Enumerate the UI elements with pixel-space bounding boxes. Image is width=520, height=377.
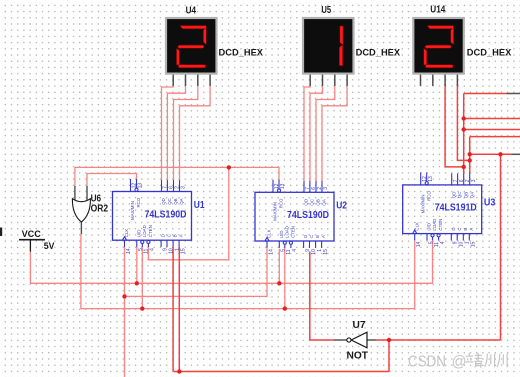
junction QA y160.4: [468, 158, 472, 162]
junction QA y154.3: [468, 152, 472, 156]
svg-text:74LS191D: 74LS191D: [435, 203, 477, 214]
wire U5 pin3 to U2 QB: [316, 84, 335, 181]
not gate U7: [334, 332, 376, 348]
wire U5 pin2 to U2 QC: [310, 84, 323, 181]
wire net RCO-bus: OR input A to U2 pin13, y=167: [75, 167, 279, 186]
junction RCO bus: [227, 165, 231, 169]
wire U1 CTEN to RCO-bus junction: [148, 167, 228, 259]
counter U1 74LS190D: [113, 179, 192, 254]
wire U3 QA trunk vertical: [469, 137, 471, 174]
wire NOT output to U2 C preset: [310, 252, 334, 341]
stub off-sheet y93.5: [507, 93, 520, 95]
svg-text:U5: U5: [321, 5, 331, 16]
wire U1 U/D drop to line A: [136, 247, 138, 283]
svg-text:OR2: OR2: [91, 204, 109, 215]
wire VCC to U/D bus (line A y=283.3) ending at U3 LOAD: [30, 241, 432, 284]
wire U5 pin1 to U2 QD: [304, 84, 310, 181]
wire CLK bus line B y=296.4 to U2 CLK: [125, 248, 268, 296]
wire U3 QB trunk vertical: [463, 94, 465, 174]
wire right trunk x=500.5 down to NOT input net: [500, 154, 502, 340]
svg-text:NOT: NOT: [347, 351, 369, 362]
junction U1 LOAD: [140, 306, 144, 310]
wire U1 A down to bottom bus: [178, 247, 180, 372]
gray right-edge stubs: [507, 94, 520, 155]
junction right trunk: [498, 152, 502, 156]
stub off-sheet y154.3: [512, 153, 520, 155]
wire QA branch top y=136.6: [470, 136, 520, 138]
wire QB branch y=118.5: [464, 118, 520, 120]
wire U4 pin2 to U1 QC: [167, 84, 185, 180]
wire U1 CLK down to sheet bottom: [124, 247, 126, 377]
wire U14 pin3 down to QB trunk: [445, 84, 464, 167]
svg-text:U4: U4: [186, 6, 197, 17]
wire OR2 output to LOAD bus (line C y=308.6) ending at U3 CLK: [81, 234, 415, 309]
wire QB branch top y=93.5: [464, 93, 507, 95]
junction QB y129.5: [462, 127, 466, 131]
junction U2 LOAD: [283, 306, 287, 310]
wire U14 pin4 down to QA trunk: [457, 84, 469, 160]
watermark glyph chuan 2: [497, 354, 507, 368]
clipped component at left edge: [0, 228, 2, 237]
junction U1 CLK: [122, 294, 126, 298]
or gate U6 OR2: [72, 186, 90, 234]
svg-text:VCC: VCC: [22, 229, 42, 239]
wire U4 pin4 to U1 QA: [180, 84, 211, 180]
wire QB branch y=129.5: [464, 129, 520, 131]
junction NOT input: [387, 338, 391, 342]
junction QB y118.5: [462, 116, 466, 120]
counter U3 74LS191D: [403, 172, 482, 247]
display U5: [303, 18, 354, 86]
junction bottom bus U1.A: [177, 369, 181, 373]
watermark glyph chuan 1: [485, 354, 495, 368]
vcc power source: [19, 240, 45, 252]
svg-text:DCD_HEX: DCD_HEX: [219, 47, 264, 57]
svg-text:U3: U3: [484, 197, 496, 208]
wire NOT input junction down to bottom bus: [388, 340, 390, 372]
digit 2 on U14: [424, 26, 454, 68]
junction QB y166.9: [462, 165, 466, 169]
counter U2 74LS190D: [255, 180, 334, 255]
svg-text:@: @: [452, 354, 467, 371]
display U4: [166, 18, 217, 86]
junction U2 U/D: [277, 281, 281, 285]
watermark glyph jing: [465, 353, 482, 368]
digit 1 on U5: [339, 26, 343, 66]
svg-text:U7: U7: [353, 320, 367, 331]
wire bottom bus y=371.5: [174, 371, 390, 373]
digit 2 on U4: [177, 26, 207, 68]
display U14: [413, 18, 464, 86]
svg-text:U1: U1: [194, 200, 205, 211]
wire U1 RCO pin13 to OR input B, y=173.5: [87, 174, 137, 187]
svg-text:CSDN: CSDN: [408, 354, 446, 371]
wire U2 U/D drop to line A: [278, 249, 280, 284]
svg-text:DCD_HEX: DCD_HEX: [356, 47, 401, 57]
svg-text:DCD_HEX: DCD_HEX: [467, 47, 512, 57]
junction U1 U/D: [135, 281, 139, 285]
svg-text:74LS190D: 74LS190D: [145, 209, 187, 220]
wire U4 pin1 to U1 QD: [162, 84, 174, 180]
wire U1 B down to bottom bus: [172, 247, 174, 372]
svg-text:5V: 5V: [44, 241, 55, 251]
svg-text:U2: U2: [336, 200, 347, 211]
wire U2 LOAD drop to line C: [284, 248, 286, 309]
wire QA branch y=154.3 to right stub: [470, 153, 512, 155]
wire NOT input to right trunk: [376, 339, 500, 341]
wire U5 pin4 to U2 QA: [322, 84, 347, 181]
wire U1 LOAD drop to line C: [141, 247, 143, 308]
wire U4 pin3 to U1 QB: [174, 84, 198, 180]
svg-text:74LS190D: 74LS190D: [287, 210, 329, 221]
svg-text:U14: U14: [430, 5, 445, 16]
